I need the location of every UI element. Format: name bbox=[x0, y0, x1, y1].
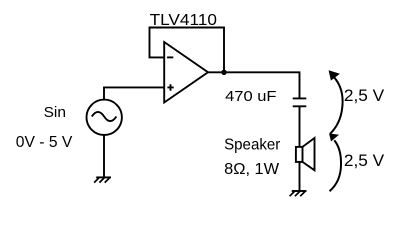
svg-text:Sin: Sin bbox=[44, 104, 66, 121]
svg-text:2,5 V: 2,5 V bbox=[344, 86, 385, 105]
svg-text:2,5 V: 2,5 V bbox=[344, 151, 385, 170]
svg-text:470 uF: 470 uF bbox=[225, 88, 276, 105]
svg-text:TLV4110: TLV4110 bbox=[150, 12, 218, 29]
svg-text:0V - 5 V: 0V - 5 V bbox=[16, 134, 73, 151]
svg-text:Speaker: Speaker bbox=[224, 137, 280, 154]
svg-text:8Ω, 1W: 8Ω, 1W bbox=[224, 161, 280, 178]
